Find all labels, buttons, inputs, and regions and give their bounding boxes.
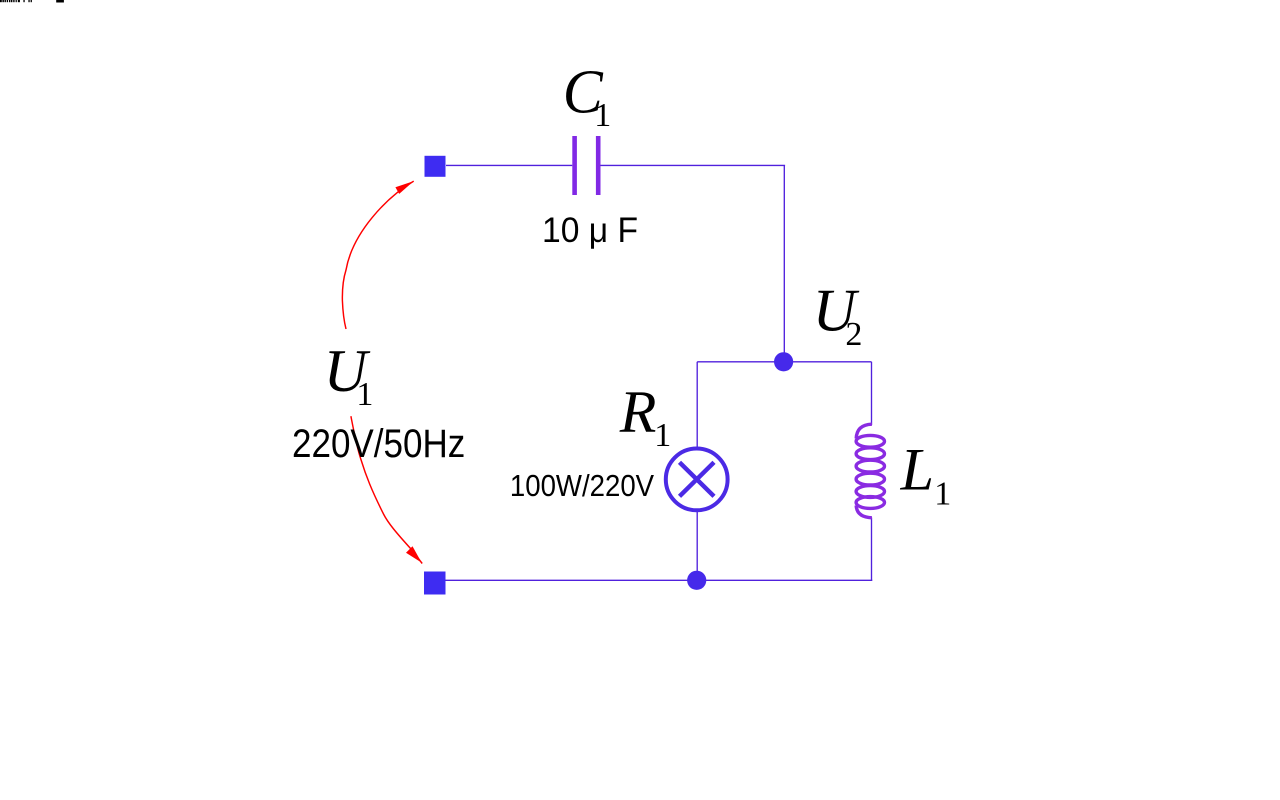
svg-text:1: 1 bbox=[934, 476, 951, 513]
svg-text:1: 1 bbox=[654, 417, 671, 454]
svg-text:100W/220V: 100W/220V bbox=[510, 468, 654, 503]
svg-text:1: 1 bbox=[594, 97, 611, 134]
svg-text:2: 2 bbox=[845, 316, 862, 353]
svg-text:1: 1 bbox=[356, 376, 373, 413]
svg-text:R: R bbox=[619, 379, 657, 445]
svg-text:220V/50Hz: 220V/50Hz bbox=[292, 422, 465, 466]
svg-text:10 μ F: 10 μ F bbox=[542, 211, 638, 250]
svg-text:L: L bbox=[900, 437, 934, 503]
